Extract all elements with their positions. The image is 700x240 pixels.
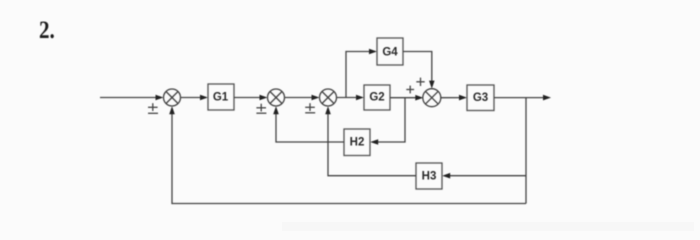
wire: H2 output up into S2 <box>276 109 344 143</box>
arrowhead into G4 <box>369 49 377 55</box>
arrowhead into G2 <box>356 95 364 101</box>
block H3 <box>416 163 442 189</box>
wire: S4 to G3 <box>441 97 465 99</box>
wire: S2 to S3 <box>285 97 318 99</box>
arrowhead into S3 <box>312 95 320 101</box>
arrowhead into H2 <box>370 139 378 145</box>
svg-text:H3: H3 <box>422 170 437 182</box>
wire: H3 output up into S3 <box>328 109 416 176</box>
summing junction S4 <box>423 89 441 107</box>
svg-text:2.: 2. <box>39 17 55 44</box>
arrowhead down into S4 <box>429 81 435 89</box>
wire: S1 to G1 <box>181 97 206 99</box>
wire: outer feedback bottom loop <box>172 109 526 204</box>
wire: S3 to G2 <box>337 97 362 99</box>
summing junction S1 <box>164 89 181 106</box>
svg-text:G3: G3 <box>473 92 488 104</box>
wire: G4 to top of S4 <box>403 52 432 85</box>
plus sign above-left of S4 <box>416 81 424 83</box>
block G3 <box>467 85 494 111</box>
svg-text:G1: G1 <box>213 92 229 104</box>
svg-text:H2: H2 <box>350 137 365 149</box>
svg-text:G2: G2 <box>369 92 384 104</box>
plus-minus sign at S3 <box>305 106 315 108</box>
wire: tap up to G4 <box>346 52 375 98</box>
wire: input line into summing junction S1 <box>100 97 161 99</box>
arrowhead up into S2 <box>273 106 279 114</box>
block G1 <box>208 84 234 110</box>
wire: branch to H3 <box>445 175 526 177</box>
arrowhead into G1 <box>200 95 208 101</box>
plus sign left of S4 <box>406 89 414 91</box>
wire: G3 to output <box>494 97 549 99</box>
arrowhead into S2 <box>260 95 268 101</box>
arrowhead up into S3 <box>325 106 331 114</box>
wire: G2 to S4 <box>390 97 421 99</box>
wire: tap down from G2 output to H2 <box>373 98 405 142</box>
block G2 <box>364 85 390 110</box>
block G4 <box>377 38 403 65</box>
wire: G1 to S2 <box>234 97 265 99</box>
wire: output branch down <box>525 98 527 204</box>
arrowhead up into S1 <box>169 106 175 114</box>
plus-minus sign at S1 <box>148 106 158 108</box>
output arrowhead <box>543 95 551 101</box>
arrowhead into G3 <box>459 95 467 101</box>
summing junction S2 <box>268 89 285 106</box>
summing junction S3 <box>320 89 337 106</box>
arrowhead into H3 <box>442 173 450 179</box>
plus-minus sign at S2 <box>256 107 266 109</box>
arrowhead into S1 <box>156 95 164 101</box>
arrowhead into S4 <box>415 95 423 101</box>
svg-text:G4: G4 <box>382 46 398 58</box>
block H2 <box>344 129 370 156</box>
